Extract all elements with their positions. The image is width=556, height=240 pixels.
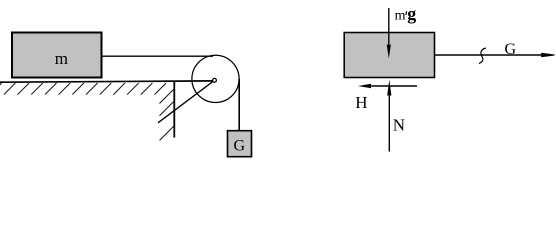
table edge vertical line bbox=[173, 81, 175, 137]
table edge hatching bbox=[160, 89, 175, 140]
table surface line bbox=[0, 81, 213, 82]
svg-text:N: N bbox=[393, 116, 405, 135]
svg-text:G: G bbox=[234, 138, 246, 155]
force arrow m*g (down) bbox=[388, 8, 390, 46]
block m (mass on table) bbox=[12, 33, 102, 78]
ground hatching bbox=[0, 83, 166, 95]
pulley axle dot bbox=[213, 78, 217, 82]
force arrow N (up) bbox=[388, 94, 390, 152]
break squiggle on G arrow bbox=[479, 48, 486, 64]
weight block G bbox=[228, 131, 252, 157]
force arrow G (right) bbox=[435, 54, 542, 56]
svg-text:m: m bbox=[395, 9, 406, 24]
svg-text:g: g bbox=[407, 4, 416, 24]
free body block (right) bbox=[344, 33, 434, 78]
svg-text:m: m bbox=[55, 49, 68, 68]
pulley support strut bbox=[158, 80, 215, 123]
svg-text:H: H bbox=[355, 93, 367, 112]
pulley wheel bbox=[192, 55, 239, 102]
svg-text:G: G bbox=[505, 41, 517, 58]
wire rope horizontal from block to pulley top bbox=[102, 55, 214, 57]
force arrow H (left) bbox=[372, 85, 418, 87]
wire rope vertical from pulley to weight G bbox=[238, 79, 240, 132]
